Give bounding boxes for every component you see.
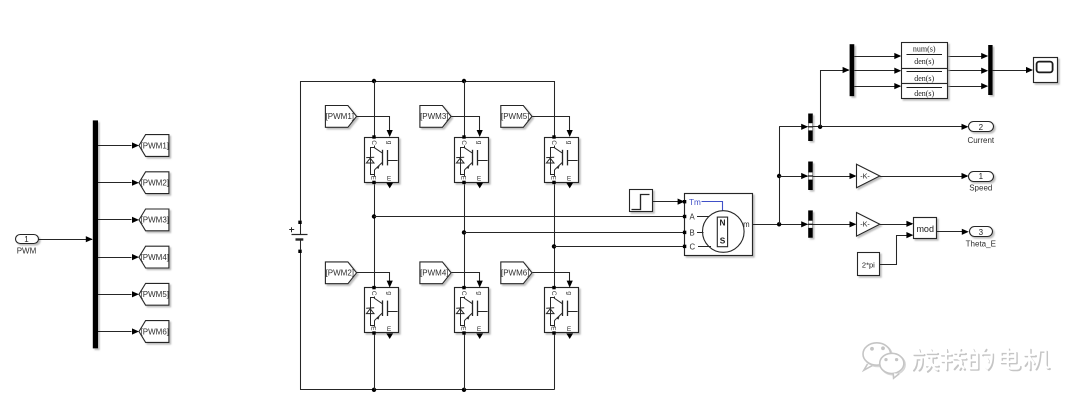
junction phase A xyxy=(372,214,376,218)
scope Scope1 xyxy=(1034,58,1058,83)
svg-text:E: E xyxy=(567,326,572,333)
svg-text:[PWM5]: [PWM5] xyxy=(501,112,529,121)
gain -K- G2 xyxy=(857,213,880,237)
wire selector1 to outport Current xyxy=(813,124,969,130)
outport 3 Theta_E xyxy=(966,227,996,249)
svg-text:E: E xyxy=(549,326,556,331)
wire demux to goto PWM2 xyxy=(98,180,139,186)
wire top DC bus xyxy=(300,81,554,83)
selector Selector1 xyxy=(808,114,813,142)
wire demux to goto PWM6 xyxy=(98,328,139,334)
IGBT Q4 xyxy=(455,286,489,339)
svg-text:Speed: Speed xyxy=(969,184,992,193)
svg-text:E: E xyxy=(477,326,482,333)
wire demux to goto PWM1 xyxy=(98,142,139,148)
svg-text:2*pi: 2*pi xyxy=(862,260,875,269)
watermark text 旋转的电机 xyxy=(913,348,1050,371)
wire demux2 to transfer fcn xyxy=(854,68,901,74)
svg-text:C: C xyxy=(370,291,377,296)
wire 2*pi to mod xyxy=(880,232,914,265)
transfer fcn num(s)/den(s) 1 xyxy=(902,43,948,69)
svg-text:g: g xyxy=(385,141,392,145)
goto tag [PWM5] xyxy=(139,283,169,305)
wire leg 3 upper xyxy=(554,81,556,137)
svg-text:[PWM3]: [PWM3] xyxy=(420,112,448,121)
svg-text:g: g xyxy=(565,141,572,145)
svg-text:Tm: Tm xyxy=(689,198,701,207)
wire demux2 to transfer fcn xyxy=(854,83,901,89)
wire phase B xyxy=(464,232,683,234)
goto tag [PWM3] xyxy=(139,209,169,231)
wire demux to goto PWM5 xyxy=(98,291,139,297)
wire step to Tm xyxy=(652,199,685,205)
IGBT Q3 xyxy=(455,135,489,188)
svg-text:E: E xyxy=(387,326,392,333)
junction bottom bus leg B xyxy=(462,388,466,392)
svg-text:E: E xyxy=(567,176,572,183)
svg-text:[PWM5]: [PWM5] xyxy=(141,290,169,299)
from tag [PWM3] xyxy=(420,106,451,128)
wire from [PWM3] to gate xyxy=(452,117,483,138)
IGBT Q1 xyxy=(365,135,399,188)
wire from [PWM5] to gate xyxy=(533,117,573,138)
wire selector3 to gain2 xyxy=(813,221,857,227)
svg-text:[PWM1]: [PWM1] xyxy=(326,112,354,121)
wire bottom DC bus xyxy=(300,389,554,391)
svg-text:-K-: -K- xyxy=(860,220,870,229)
wire leg 2 upper xyxy=(464,81,466,137)
wire transfer fcn to mux xyxy=(947,83,988,89)
IGBT Q6 xyxy=(545,286,579,339)
wire spine vertical xyxy=(779,127,781,225)
wire spine to selector1 xyxy=(779,124,808,130)
demux Demux2 xyxy=(850,44,855,96)
svg-text:E: E xyxy=(369,326,376,331)
wire spine to selector2 xyxy=(779,173,808,179)
mux Mux1 xyxy=(988,45,992,95)
goto tag [PWM2] xyxy=(139,172,169,194)
step source Tm xyxy=(630,190,653,212)
svg-text:C: C xyxy=(370,140,377,145)
svg-text:[PWM6]: [PWM6] xyxy=(141,327,169,336)
svg-text:PWM: PWM xyxy=(17,247,37,256)
wire leg 3 middle xyxy=(554,182,556,287)
wire leg 1 middle xyxy=(374,182,376,287)
svg-text:g: g xyxy=(565,291,572,295)
wire gain2 to mod xyxy=(880,221,914,227)
gain -K- G1 xyxy=(857,164,880,188)
wire demux2 to transfer fcn xyxy=(854,53,901,59)
from tag [PWM2] xyxy=(325,262,356,284)
wire demux to goto PWM4 xyxy=(98,254,139,260)
svg-text:C: C xyxy=(690,242,696,251)
wire transfer fcn to mux xyxy=(947,68,988,74)
svg-text:g: g xyxy=(475,141,482,145)
junction top bus leg A xyxy=(372,79,376,83)
svg-text:C: C xyxy=(460,291,467,296)
wire phase A xyxy=(374,216,683,218)
goto tag [PWM4] xyxy=(139,246,169,268)
wire from [PWM1] to gate xyxy=(357,117,393,138)
inport 1 PWM xyxy=(16,235,39,256)
junction phase C xyxy=(552,244,556,248)
svg-text:S: S xyxy=(720,235,726,245)
svg-text:B: B xyxy=(690,228,695,237)
outport 1 Speed xyxy=(969,172,994,193)
junction m spine xyxy=(777,222,781,226)
wire inport to demux xyxy=(38,236,93,242)
wire leg 1 upper xyxy=(374,81,376,137)
wire from [PWM2] to gate xyxy=(357,273,393,288)
watermark wechat logo xyxy=(863,343,905,378)
from tag [PWM6] xyxy=(501,262,532,284)
svg-text:-K-: -K- xyxy=(860,171,870,180)
junction phase B xyxy=(462,230,466,234)
IGBT Q2 xyxy=(365,286,399,339)
wire leg 2 middle xyxy=(464,182,466,287)
wire leg 1 lower xyxy=(374,333,376,390)
svg-text:1: 1 xyxy=(24,235,29,244)
svg-text:g: g xyxy=(475,291,482,295)
mod block xyxy=(914,218,937,239)
from tag [PWM5] xyxy=(501,106,532,128)
svg-text:[PWM2]: [PWM2] xyxy=(326,269,354,278)
transfer fcn den(s) 3 xyxy=(902,84,948,99)
wire battery bottom xyxy=(300,253,302,390)
svg-text:E: E xyxy=(459,326,466,331)
selector Selector3 xyxy=(808,210,813,237)
wire transfer fcn to mux xyxy=(947,53,988,59)
svg-text:[PWM2]: [PWM2] xyxy=(141,179,169,188)
svg-text:E: E xyxy=(369,176,376,181)
wire m output xyxy=(752,221,808,227)
svg-text:Theta_E: Theta_E xyxy=(966,240,996,249)
goto tag [PWM1] xyxy=(139,135,169,157)
PMSM motor M1 xyxy=(683,194,753,256)
svg-text:den(s): den(s) xyxy=(914,89,934,98)
wire branch up xyxy=(821,67,850,127)
wire selector2 to gain1 xyxy=(813,173,857,179)
svg-text:1: 1 xyxy=(979,172,984,181)
junction top bus leg B xyxy=(462,79,466,83)
wire leg 2 lower xyxy=(464,333,466,390)
wire from [PWM6] to gate xyxy=(533,273,573,288)
from tag [PWM4] xyxy=(420,262,451,284)
svg-text:A: A xyxy=(690,213,696,222)
svg-text:E: E xyxy=(477,176,482,183)
svg-text:C: C xyxy=(550,140,557,145)
IGBT Q5 xyxy=(545,135,579,188)
transfer fcn den(s) 2 xyxy=(902,69,948,84)
wire demux to goto PWM3 xyxy=(98,217,139,223)
svg-text:C: C xyxy=(550,291,557,296)
svg-text:[PWM1]: [PWM1] xyxy=(141,141,169,150)
goto tag [PWM6] xyxy=(139,321,169,343)
svg-text:[PWM6]: [PWM6] xyxy=(501,269,529,278)
svg-text:num(s): num(s) xyxy=(913,45,936,54)
svg-text:den(s): den(s) xyxy=(914,57,934,66)
from tag [PWM1] xyxy=(325,106,356,128)
DC voltage source V1 xyxy=(289,221,307,253)
wire gain1 to outport Speed xyxy=(880,173,969,179)
svg-text:C: C xyxy=(460,140,467,145)
svg-text:[PWM3]: [PWM3] xyxy=(141,216,169,225)
wire mux to scope xyxy=(993,67,1033,73)
svg-text:[PWM4]: [PWM4] xyxy=(141,253,169,262)
svg-text:3: 3 xyxy=(979,228,984,237)
svg-text:E: E xyxy=(549,176,556,181)
constant 2*pi xyxy=(858,253,880,276)
svg-text:2: 2 xyxy=(979,123,984,132)
svg-text:E: E xyxy=(387,176,392,183)
wire mod to outport Theta_E xyxy=(936,229,969,235)
wire battery top xyxy=(300,81,302,221)
svg-text:den(s): den(s) xyxy=(914,74,934,83)
svg-text:[PWM4]: [PWM4] xyxy=(420,269,448,278)
wire leg 3 lower xyxy=(554,333,556,390)
outport 2 Current xyxy=(967,122,994,146)
wire phase C xyxy=(554,246,683,248)
wire from [PWM4] to gate xyxy=(452,273,483,288)
junction current branch xyxy=(818,125,822,129)
selector Selector2 xyxy=(808,162,813,191)
svg-text:mod: mod xyxy=(916,224,934,234)
svg-text:g: g xyxy=(385,291,392,295)
svg-text:E: E xyxy=(459,176,466,181)
svg-text:N: N xyxy=(720,217,726,227)
demux Demux1 xyxy=(93,120,98,348)
svg-text:Current: Current xyxy=(967,136,994,145)
junction bottom bus leg A xyxy=(372,388,376,392)
junction spine row2 xyxy=(777,174,781,178)
